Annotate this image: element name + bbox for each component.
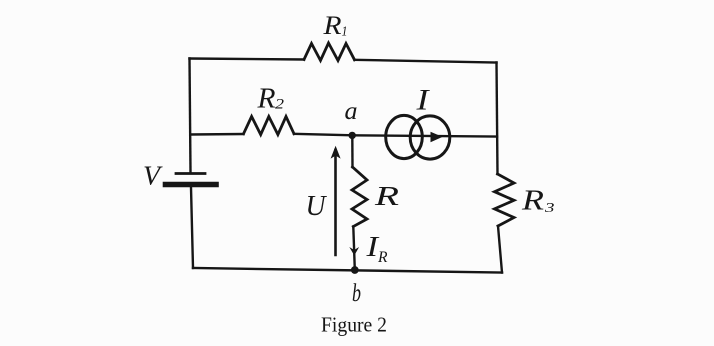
wire middle branch node a down to R	[351, 136, 354, 168]
svg-text:R: R	[374, 181, 400, 211]
svg-text:R: R	[521, 185, 545, 217]
wire right vertical lower (R3 to bottom corner)	[498, 226, 502, 273]
resistor R1	[304, 43, 355, 61]
svg-text:R: R	[322, 10, 341, 40]
svg-text:R: R	[377, 249, 388, 266]
wire left vertical upper (top corner to battery)	[190, 59, 191, 172]
svg-text:a: a	[345, 98, 358, 125]
wire R down to node b	[353, 227, 355, 270]
wire middle horizontal left segment	[191, 133, 244, 136]
svg-text:b: b	[352, 280, 361, 307]
resistor R3	[495, 174, 515, 226]
node b	[351, 266, 359, 274]
resistor R2	[244, 117, 295, 135]
voltage source V top plate (thin)	[176, 172, 205, 175]
wire node a through current source to right wire	[352, 135, 497, 136]
resistor R	[352, 167, 367, 227]
wire right vertical upper (top corner to R3)	[497, 63, 498, 175]
current source arrow head (right)	[431, 132, 443, 143]
svg-text:U: U	[306, 190, 328, 222]
wire R2 to node a	[294, 134, 352, 136]
wire top-left to R1	[190, 59, 305, 60]
current source I circle right	[410, 116, 450, 159]
arrow U head (up)	[331, 146, 341, 159]
svg-text:3: 3	[544, 201, 555, 216]
wire left vertical lower (battery to bottom corner)	[191, 188, 193, 269]
wire bottom	[193, 268, 502, 273]
svg-text:Figure 2: Figure 2	[321, 313, 387, 337]
voltage source V bottom plate (thick)	[166, 182, 217, 188]
svg-text:R: R	[256, 84, 275, 115]
node a	[349, 132, 356, 139]
wire R1 to top-right corner	[355, 60, 497, 63]
svg-text:1: 1	[342, 23, 348, 38]
current source I circle left	[386, 115, 423, 158]
svg-text:2: 2	[275, 96, 284, 112]
arrow U shaft	[334, 150, 337, 255]
arrow I_R head (down)	[349, 247, 359, 256]
